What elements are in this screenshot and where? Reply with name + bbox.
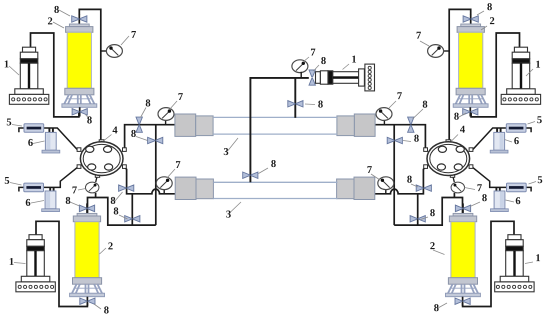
svg-text:7: 7	[310, 48, 315, 59]
right half: mirror image of left half	[337, 9, 541, 306]
flow cell 5 upper	[24, 124, 44, 133]
svg-text:8: 8	[87, 115, 92, 126]
module big block left bottom	[175, 177, 196, 199]
column 2 bottom-left	[70, 203, 105, 306]
gauge 7 right of column A	[106, 45, 122, 58]
flow cell 5 lower	[24, 183, 44, 192]
svg-text:5: 5	[537, 115, 542, 126]
svg-text:6: 6	[514, 136, 519, 147]
svg-text:1: 1	[535, 253, 540, 264]
wire item5b left hook	[19, 187, 24, 191]
svg-text:8: 8	[414, 134, 419, 145]
svg-text:7: 7	[397, 91, 402, 102]
svg-text:3: 3	[226, 209, 231, 220]
svg-text:7: 7	[416, 31, 421, 42]
wire multiport UR up to top feed line into module	[125, 125, 175, 151]
valve 8 on centre-left permeate	[243, 172, 258, 178]
valve 8 on centre-right permeate	[288, 101, 303, 107]
svg-text:8: 8	[318, 100, 323, 111]
valve 8 above column B	[79, 205, 94, 211]
wire gauge5 stub	[300, 72, 302, 78]
valve 8 on bypass	[148, 137, 163, 143]
svg-text:7: 7	[175, 160, 180, 171]
beaker 6 lower	[42, 191, 60, 212]
svg-text:4: 4	[460, 125, 466, 136]
svg-text:6: 6	[515, 196, 520, 207]
valve 8 on branch	[125, 216, 140, 222]
svg-text:5: 5	[537, 175, 542, 186]
beaker A dip tubes	[49, 128, 53, 146]
valve 8 on top feed line	[136, 117, 142, 132]
wire multiport LL to item5b and beaker B	[44, 166, 79, 187]
module small block left top	[196, 116, 213, 136]
module small block left bottom	[196, 179, 213, 199]
svg-text:8: 8	[104, 305, 109, 316]
svg-text:7: 7	[131, 30, 136, 41]
pump 1 horizontal permeate	[316, 64, 375, 91]
pump 1 bottom-left	[16, 235, 55, 292]
svg-text:7: 7	[367, 165, 372, 176]
svg-text:1: 1	[4, 59, 9, 70]
svg-text:7: 7	[178, 92, 183, 103]
wire column B bottom valve to pump1b	[36, 221, 87, 306]
svg-text:8: 8	[434, 303, 439, 314]
svg-text:8: 8	[482, 193, 487, 204]
svg-text:1: 1	[535, 60, 540, 71]
svg-text:8: 8	[131, 129, 136, 140]
svg-text:7: 7	[72, 185, 77, 196]
valve 8 on lower feed	[119, 185, 134, 191]
svg-text:8: 8	[65, 196, 70, 207]
multiport valve 4 left	[77, 140, 126, 178]
wire gauge1 stub	[101, 50, 107, 52]
gauge 7 top feed	[158, 108, 174, 121]
beaker B dip tubes	[50, 187, 53, 205]
svg-text:8: 8	[430, 208, 435, 219]
wire branch with valve	[131, 194, 133, 225]
svg-text:2: 2	[489, 16, 494, 27]
module big block left top	[175, 114, 196, 136]
svg-text:8: 8	[54, 5, 59, 16]
wire multiport LR down through valve to bottom feed line with hop	[123, 166, 175, 194]
svg-text:2: 2	[108, 241, 113, 252]
svg-text:2: 2	[47, 16, 52, 27]
left half of apparatus (mirrored below for right half)	[9, 9, 213, 306]
svg-text:1: 1	[351, 55, 356, 66]
gauge 7 lower feed	[156, 177, 172, 190]
centre permeate line from top module	[294, 78, 296, 118]
svg-text:8: 8	[422, 100, 427, 111]
svg-text:8: 8	[271, 159, 276, 170]
svg-text:1: 1	[9, 257, 14, 268]
wire gauge4 stub	[163, 189, 165, 194]
column 2 top-left	[62, 14, 97, 117]
svg-text:8: 8	[487, 2, 492, 13]
wire multiport bottom to gauge2	[96, 176, 98, 182]
centre permeate line from bottom module	[250, 78, 308, 182]
svg-text:2: 2	[430, 241, 435, 252]
wire sample line item5a to beaker and multiport UL	[19, 128, 78, 150]
svg-text:8: 8	[145, 98, 150, 109]
wire gauge3 stub	[165, 120, 167, 125]
svg-text:6: 6	[28, 138, 33, 149]
beaker 6 upper	[42, 132, 60, 153]
svg-text:8: 8	[321, 56, 326, 67]
wire pump1a to column A bottom valve	[31, 33, 79, 117]
gauge 7 below multiport	[85, 182, 98, 193]
svg-text:8: 8	[454, 112, 459, 123]
wire gauge2 junction to column B and return line	[88, 193, 156, 225]
svg-text:8: 8	[110, 196, 115, 207]
svg-text:5: 5	[6, 117, 11, 128]
svg-text:4: 4	[112, 125, 118, 136]
wire column A top valve over to multiport with gauge tap	[79, 9, 101, 139]
svg-text:5: 5	[4, 176, 9, 187]
valve 8 at permeate pump inlet	[309, 70, 315, 85]
pump 1 top-left	[9, 47, 48, 104]
svg-text:3: 3	[223, 147, 228, 158]
membrane tube 3 top	[213, 117, 337, 134]
svg-text:8: 8	[407, 175, 412, 186]
membrane tube 3 bottom	[213, 182, 337, 198]
gauge 7 permeate	[292, 60, 308, 73]
svg-text:6: 6	[25, 198, 30, 209]
svg-text:8: 8	[113, 206, 118, 217]
wire bypass vertical	[155, 125, 157, 225]
